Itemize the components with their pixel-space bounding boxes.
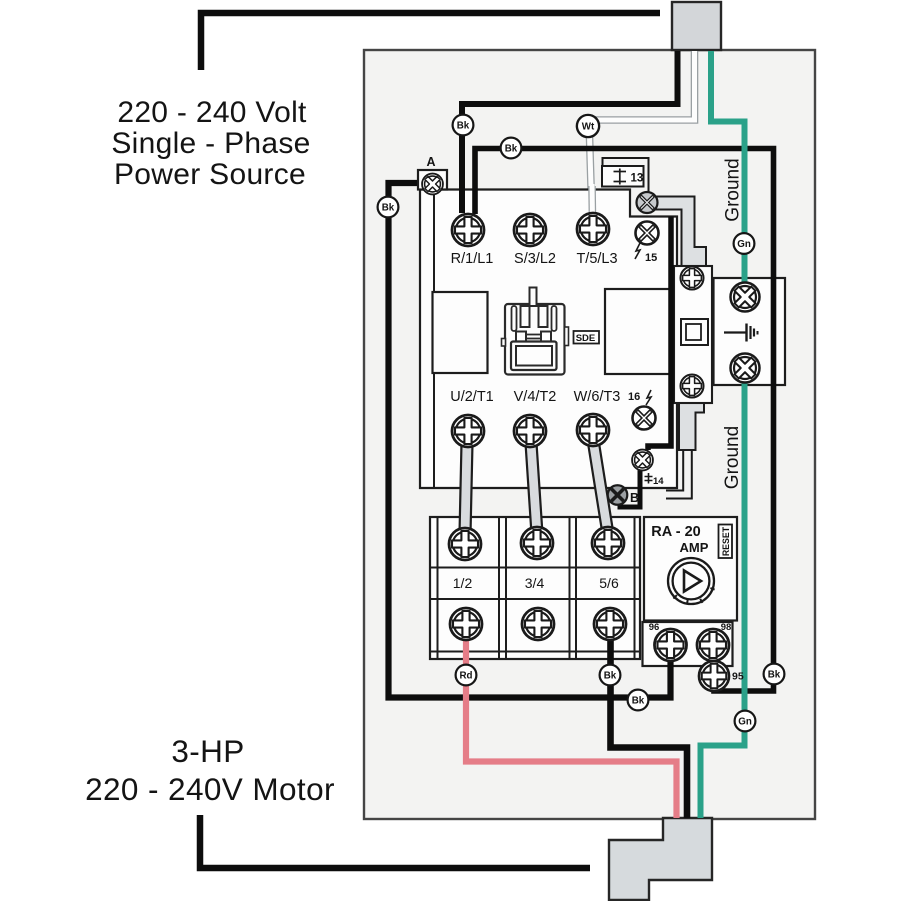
svg-text:13: 13 [631, 173, 644, 185]
svg-text:Gn: Gn [737, 239, 751, 250]
svg-text:Bk: Bk [382, 203, 395, 214]
svg-text:Rd: Rd [459, 671, 472, 682]
svg-text:U/2/T1: U/2/T1 [450, 389, 494, 405]
svg-text:S/3/L2: S/3/L2 [514, 251, 556, 267]
svg-text:Bk: Bk [604, 671, 617, 682]
svg-text:SDE: SDE [576, 333, 596, 344]
svg-text:RESET: RESET [721, 526, 731, 556]
svg-text:14: 14 [653, 476, 664, 487]
svg-text:B: B [630, 491, 639, 505]
svg-text:W/6/T3: W/6/T3 [574, 389, 621, 405]
svg-text:R/1/L1: R/1/L1 [451, 251, 494, 267]
svg-text:96: 96 [649, 622, 660, 633]
svg-text:3/4: 3/4 [525, 575, 545, 591]
svg-text:Gn: Gn [738, 717, 752, 728]
svg-text:15: 15 [645, 252, 657, 264]
svg-text:220 - 240 Volt: 220 - 240 Volt [117, 96, 307, 129]
svg-text:Ground: Ground [723, 158, 744, 221]
svg-text:Bk: Bk [632, 696, 645, 707]
svg-text:3-HP: 3-HP [171, 733, 244, 769]
svg-text:AMP: AMP [680, 540, 709, 555]
svg-text:T/5/L3: T/5/L3 [576, 251, 617, 267]
svg-text:RA - 20: RA - 20 [651, 524, 700, 540]
svg-text:Bk: Bk [768, 670, 781, 681]
svg-text:V/4/T2: V/4/T2 [514, 389, 557, 405]
svg-text:Power Source: Power Source [114, 158, 306, 191]
svg-text:Single - Phase: Single - Phase [111, 127, 310, 160]
svg-text:5/6: 5/6 [599, 575, 619, 591]
svg-text:Bk: Bk [457, 121, 470, 132]
svg-text:1/2: 1/2 [453, 575, 473, 591]
svg-text:16: 16 [628, 391, 640, 403]
svg-text:Wt: Wt [582, 122, 595, 133]
svg-text:Ground: Ground [722, 426, 743, 489]
svg-text:95: 95 [732, 671, 744, 683]
svg-text:Bk: Bk [505, 144, 518, 155]
svg-text:A: A [426, 155, 435, 169]
svg-text:220 - 240V Motor: 220 - 240V Motor [85, 771, 335, 807]
